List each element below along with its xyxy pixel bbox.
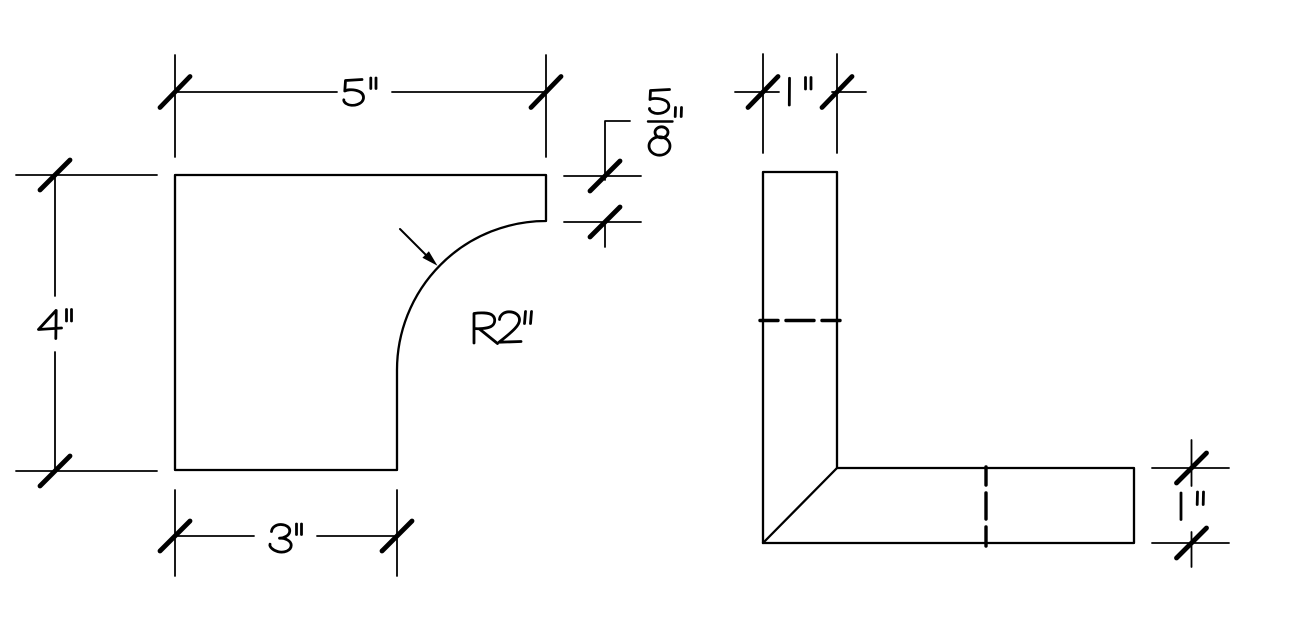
extension line 1in top right — [836, 54, 838, 153]
part outline left view — [175, 175, 546, 470]
text 1in top — [789, 78, 811, 106]
extension line 5/8in top — [564, 175, 641, 177]
text 1in right — [1181, 492, 1204, 520]
extension line 1in top left — [762, 54, 764, 153]
extension line 5in right — [545, 55, 547, 157]
tick 1in right bottom — [1177, 528, 1207, 558]
text R2in — [474, 312, 532, 344]
dimension line 4in — [54, 175, 56, 471]
dimension line 1in top — [735, 91, 866, 93]
tick 1in top left — [748, 77, 778, 108]
leader 5/8in — [605, 121, 630, 247]
tick 1in right top — [1177, 453, 1207, 483]
tick 5/8in top — [590, 161, 620, 191]
tick 5in left — [160, 77, 190, 108]
dashed bend line vertical leg — [760, 319, 840, 322]
dimension line 5in — [175, 91, 546, 93]
extension line 3in right — [396, 490, 398, 576]
tick 3in left — [160, 521, 190, 551]
miter line — [763, 468, 837, 543]
text 5/8in fraction — [648, 90, 682, 156]
tick 1in top right — [822, 77, 852, 108]
dimension line 1in right — [1191, 440, 1193, 567]
extension line 1in right bottom — [1152, 542, 1229, 544]
text 4in — [39, 310, 72, 339]
extension line 5in left — [174, 55, 176, 157]
part outline right view L-angle — [763, 172, 1134, 543]
extension line 4in top — [16, 174, 157, 176]
text 5in — [344, 78, 376, 105]
extension line 5/8in bottom — [564, 221, 641, 223]
dimension line 3in — [175, 535, 397, 537]
dashed bend line horizontal leg — [984, 467, 987, 546]
tick 5in right — [531, 77, 561, 108]
tick 4in top — [40, 160, 70, 190]
text 3in — [270, 524, 302, 552]
leader arrow R2 — [400, 229, 428, 257]
tick 4in bottom — [40, 456, 70, 486]
extension line 3in left — [174, 490, 176, 576]
extension line 4in bottom — [16, 470, 157, 472]
tick 5/8in bottom — [590, 207, 620, 237]
extension line 1in right top — [1152, 467, 1229, 469]
tick 3in right — [382, 521, 412, 551]
